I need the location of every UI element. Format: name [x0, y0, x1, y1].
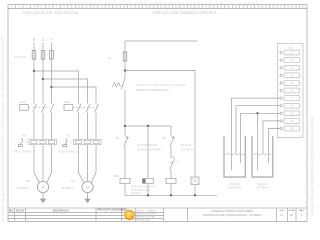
- junction dot T tap: [50, 86, 52, 88]
- svg-text:2a: 2a: [116, 136, 120, 140]
- junction dot S tap: [42, 78, 44, 80]
- fuse F6: [123, 52, 127, 61]
- fuse F1: [32, 51, 36, 60]
- contactor KM1 coil box: [20, 105, 29, 111]
- drawing title text: [202, 210, 262, 217]
- watermark left: [1, 36, 5, 221]
- wire branch rail: [125, 125, 171, 127]
- thermal relay F5 heater 1: [76, 140, 82, 143]
- motor M2: [82, 181, 93, 192]
- thermal relay F5 heater 2: [85, 140, 91, 143]
- svg-text:-: -: [175, 213, 176, 217]
- wire probe E (tank2): [269, 129, 281, 164]
- label fuses F1 F2 F3: [14, 55, 26, 59]
- pump arrow M2: [84, 193, 90, 204]
- wire relay to motor M2 mid: [87, 145, 89, 182]
- label DESCRIPCION col: [53, 210, 69, 212]
- svg-text:REV: REV: [299, 210, 304, 212]
- wire KA1 to rail: [147, 183, 149, 195]
- label M1: [27, 179, 31, 183]
- wire branch 3 down: [170, 126, 172, 137]
- node T: [51, 38, 53, 42]
- svg-text:F1 F2 F3: F1 F2 F3: [14, 55, 26, 59]
- label ESC cell: [280, 210, 285, 217]
- logo: [124, 210, 135, 221]
- label BOMBA 1: [17, 186, 30, 190]
- svg-text:FECHA: 2020: FECHA: 2020: [136, 218, 150, 221]
- title block sign rows: [136, 211, 156, 222]
- coil KM2: [166, 179, 176, 184]
- svg-text:CISTERNA: CISTERNA: [256, 186, 269, 190]
- svg-text:TANQUE SUPERIOR: TANQUE SUPERIOR: [137, 149, 161, 152]
- wire phase R top: [33, 43, 35, 51]
- svg-text:BOMBA 2: BOMBA 2: [62, 186, 75, 190]
- wire tap R to KM2: [34, 71, 79, 104]
- junction dot control node: [124, 69, 126, 71]
- contactor KM2 link (dashed): [73, 106, 95, 108]
- wire fuse to node: [124, 61, 126, 78]
- svg-text:DESCRIPCION: DESCRIPCION: [53, 210, 69, 212]
- contactor KM2 contact pole 1: [77, 104, 81, 113]
- svg-text:T: T: [51, 38, 53, 42]
- label sensor: [177, 161, 179, 164]
- wire phase R to contact: [33, 59, 35, 103]
- svg-text:REV: REV: [9, 210, 14, 212]
- wire tap S to KM2: [43, 79, 88, 104]
- fuse F3: [50, 51, 54, 60]
- tank 1 (superior): [224, 136, 245, 177]
- label 2a branch1: [116, 136, 120, 140]
- contactor KM2 label: [64, 100, 70, 104]
- wire tap T to KM2: [52, 87, 97, 104]
- motor M1: [37, 181, 48, 192]
- junction dot rail lamp: [194, 194, 196, 196]
- label 2a branch3: [162, 136, 166, 140]
- svg-text:BOMBA 1: BOMBA 1: [131, 192, 142, 195]
- wire probe A (tank1 high): [232, 98, 281, 170]
- label tank 1: [228, 182, 242, 190]
- thermal relay F4 heater 1: [31, 140, 37, 143]
- svg-text:CREADO CON UNA VERSION PARA ES: CREADO CON UNA VERSION PARA ESTUDIANTES …: [62, 0, 258, 4]
- label F4: [22, 134, 26, 138]
- svg-text:BOMBA 1: BOMBA 1: [17, 186, 30, 190]
- wire probe D (tank2): [263, 121, 280, 154]
- svg-text:RELE TERMICO: RELE TERMICO: [59, 150, 78, 154]
- label RELE TERMICO F5: [59, 150, 78, 154]
- label FECHA col: [16, 209, 24, 212]
- svg-text:B2 NIVEL: B2 NIVEL: [181, 144, 193, 147]
- node S: [42, 38, 44, 42]
- contactor KM1 contact pole 3: [50, 104, 54, 113]
- thermal relay F4 heater 2: [40, 140, 46, 143]
- thermal relay F4 trip lever: [18, 139, 28, 147]
- label M2: [71, 179, 75, 183]
- junction dot rail KM2: [170, 194, 172, 196]
- contactor KM2 contact pole 3: [95, 104, 99, 113]
- label CONTACTO 95-96 RELE TERMICO: [136, 83, 186, 92]
- svg-text:CISTERNA: CISTERNA: [181, 149, 194, 152]
- wire relay to motor M1 right: [46, 145, 51, 183]
- svg-text:CIRCUITO DE POTENCIA: CIRCUITO DE POTENCIA: [23, 10, 79, 15]
- junction dot rail KA1: [147, 194, 149, 196]
- svg-text:M1: M1: [27, 179, 31, 183]
- title block: [8, 208, 307, 221]
- svg-text:KM1: KM1: [20, 100, 26, 104]
- wire phase T top: [51, 43, 53, 51]
- label F5: [67, 134, 71, 138]
- svg-text:S: S: [42, 38, 44, 42]
- contactor KM1 contact pole 2: [42, 104, 46, 113]
- svg-text:SISTEMA AUTOMATICO DE BOMBEO: SISTEMA AUTOMATICO DE BOMBEO: [211, 210, 253, 213]
- svg-text:CREADO CON UNA VERSION PARA ES: CREADO CON UNA VERSION PARA ESTUDIANTES …: [311, 115, 315, 216]
- svg-text:CIRCUITO DE MANDO/CONTROL: CIRCUITO DE MANDO/CONTROL: [152, 10, 218, 15]
- label B1 nivel: [137, 144, 161, 151]
- title: CIRCUITO DE MANDO/CONTROL: [152, 10, 218, 15]
- label REV col: [9, 210, 14, 212]
- contactor KM1 link (dashed): [28, 106, 50, 108]
- svg-text:CONTACTO 95-96 RELE TERMICO: CONTACTO 95-96 RELE TERMICO: [136, 83, 186, 87]
- svg-text:M: M: [42, 186, 45, 190]
- float switch contact 2a (branch 3): [170, 136, 175, 147]
- svg-text:RELE TERMICO: RELE TERMICO: [14, 150, 33, 154]
- level sensor contact (loop actuator): [170, 157, 175, 170]
- wire bottom rail N: [125, 194, 217, 196]
- wire S contact to relay: [42, 112, 44, 139]
- label RELE TERMICO F4: [14, 150, 33, 154]
- wire probe C (common): [241, 113, 281, 163]
- wire KM2 pole2 to relay: [87, 112, 89, 139]
- thermal relay F4 box: [29, 139, 57, 144]
- svg-text:HOJA: HOJA: [289, 209, 295, 212]
- wire switch3 segment: [170, 147, 172, 158]
- svg-text:M: M: [86, 186, 89, 190]
- svg-text:M2: M2: [71, 179, 75, 183]
- label tank 2: [256, 182, 269, 190]
- wire relay to motor M1 left: [34, 145, 40, 183]
- label bobina KM1: [131, 186, 156, 195]
- watermark right: [311, 115, 315, 216]
- svg-text:CREADO CON UNA VERSION PARA ES: CREADO CON UNA VERSION PARA ESTUDIANTES …: [1, 36, 5, 221]
- svg-text:2a: 2a: [162, 136, 166, 140]
- wire T contact to relay: [51, 112, 53, 139]
- svg-text:DIBUJO: J. PEREZ: DIBUJO: J. PEREZ: [136, 211, 156, 213]
- svg-text:TANQUE: TANQUE: [257, 182, 268, 186]
- wire lamp to rail: [194, 185, 196, 196]
- wire lamp rail: [125, 71, 195, 178]
- counter relay KA1: [143, 179, 154, 184]
- svg-text:KM2: KM2: [64, 100, 70, 104]
- thermal relay F4 heater 3: [49, 140, 55, 143]
- fuse F2: [41, 51, 45, 60]
- water level tank 2: [253, 153, 271, 155]
- svg-text:ESC: ESC: [280, 210, 285, 212]
- wire KM2 pole1 to relay: [78, 112, 80, 139]
- wire control feed: [124, 41, 126, 52]
- wire sensor to coil KM2: [170, 170, 172, 179]
- label PROYECTO: [98, 209, 128, 212]
- wire coil KM2 to rail: [170, 184, 172, 196]
- watermark top: [62, 0, 258, 4]
- svg-text:REVISO: M. LOPEZ: REVISO: M. LOPEZ: [136, 214, 156, 216]
- wire branch KA down: [147, 126, 149, 179]
- label REV cell: [299, 210, 304, 217]
- water level tank 1: [225, 153, 245, 155]
- label F6: [108, 57, 112, 61]
- contactor KM1 label: [20, 100, 26, 104]
- coil KM1: [120, 179, 130, 184]
- svg-text:C: C: [291, 97, 293, 100]
- svg-text:F6: F6: [108, 57, 112, 61]
- svg-text:B1 NIVEL MINIMO: B1 NIVEL MINIMO: [137, 144, 158, 147]
- wire phase S top: [42, 43, 44, 51]
- label BOMBA 2: [62, 186, 75, 190]
- wire phase S to contact: [42, 59, 44, 103]
- junction dot R tap: [33, 70, 35, 72]
- terminal strip X1 box: [278, 44, 304, 138]
- contactor KM2 coil box: [64, 105, 73, 111]
- node R: [33, 38, 36, 42]
- wire probe common tank2: [257, 113, 259, 170]
- wire KM2 pole3 to relay: [95, 112, 97, 139]
- tank 2 (cisterna): [252, 136, 273, 177]
- contactor KM1 contact pole 1: [33, 104, 37, 113]
- float switch contact 2a (branch 1): [124, 136, 129, 147]
- wire relay to motor M1 mid: [42, 145, 44, 182]
- junction dot branch KA: [147, 125, 149, 127]
- thermal relay F5 heater 3: [93, 140, 99, 143]
- title: CIRCUITO DE POTENCIA: [23, 10, 79, 15]
- label coil KM1: [114, 174, 120, 178]
- wire switch1 to coil KM1: [124, 147, 126, 179]
- junction dot common: [256, 112, 258, 114]
- thermal NC contact 95-96: [113, 78, 126, 89]
- svg-text:PROYECTO DE BOMBEO: PROYECTO DE BOMBEO: [98, 209, 128, 212]
- svg-text:SUPERIOR: SUPERIOR: [228, 186, 242, 190]
- wire R contact to relay: [33, 112, 35, 139]
- wire control top rail L1: [125, 40, 198, 42]
- title block dash cell: [175, 213, 176, 217]
- label HOJA cell: [289, 209, 295, 217]
- svg-text:APROBO: R. DIAZ: APROBO: R. DIAZ: [136, 216, 155, 219]
- label B2 nivel: [181, 144, 194, 151]
- svg-text:(PROTECCION SOBRECARGA): (PROTECCION SOBRECARGA): [136, 88, 169, 92]
- svg-text:CONTROL DE NIVEL TANQUE ELEVAD: CONTROL DE NIVEL TANQUE ELEVADO - CISTER…: [202, 214, 262, 217]
- svg-text:FECHA: FECHA: [16, 209, 24, 212]
- pump arrow M1: [40, 193, 46, 204]
- svg-text:CN1: CN1: [288, 45, 294, 49]
- wire contact to node 2: [124, 90, 126, 137]
- thermal relay F5 box: [74, 139, 102, 144]
- signal lamp H1: [191, 177, 199, 185]
- svg-text:KM1: KM1: [114, 174, 120, 178]
- thermal relay F5 trip lever: [63, 139, 73, 147]
- wire relay to motor M2 left: [79, 145, 85, 183]
- wire coil KM1 to rail: [124, 184, 126, 196]
- contactor KM2 contact pole 2: [86, 104, 90, 113]
- wire relay to motor M2 right: [91, 145, 96, 183]
- wire probe B (tank1 mid): [236, 106, 280, 154]
- svg-text:TANQUE: TANQUE: [229, 182, 240, 186]
- wire phase T to contact: [51, 59, 53, 103]
- junction dot node 2: [124, 125, 126, 127]
